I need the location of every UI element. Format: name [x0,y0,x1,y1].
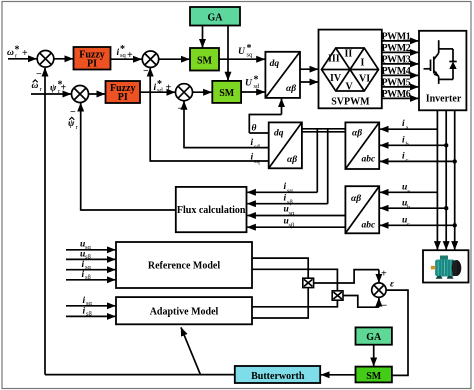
svg-text:−: − [70,107,76,118]
wire adaptive model output 2 [252,288,308,318]
wire S4 to SM 2 [193,91,212,93]
summing junction S5 (speed error epsilon) [372,283,386,297]
summing junction S4 (d-current error) [176,84,193,101]
node U_sq* label [238,43,253,59]
node i_salpha label [284,182,294,195]
wire beta current U2 to T1 lower [302,131,346,133]
wire inverter phase a vertical [436,110,438,249]
svg-text:dq: dq [270,59,280,69]
controller SM 1 (q-axis sliding mode) [190,48,219,71]
svg-text:sq: sq [120,52,127,59]
wire flux output psi_r hat horizontal [81,209,176,211]
wire speed reference input [8,58,37,60]
wire M2 to summing junction S5 minus input [343,296,379,308]
wire GA to SM bottom [373,345,375,366]
svg-text:U: U [245,79,253,89]
node u_salpha input label (reference model) [80,240,92,251]
svg-text:+: + [381,269,387,280]
svg-text:III: III [328,54,340,65]
svg-text:ψ: ψ [50,84,57,94]
node i_sq feedback label [251,153,261,166]
node U_sd* label [245,75,260,91]
svg-text:II: II [345,49,353,60]
wire i_a into T1 [380,128,437,130]
wire i_c into T1 [380,160,455,162]
transistor IGBT with freewheeling diode inside inverter [424,40,457,84]
svg-text:sd: sd [254,83,261,90]
wire psi_r hat vertical into S2 [80,103,82,211]
node i_salpha input label (reference model) [82,260,92,271]
node i_salpha input label (adaptive model) [83,296,93,307]
wire u_c into T2 [380,224,455,226]
transform block T2 alphabeta to abc (voltages) [345,186,379,233]
optimizer GA (bottom) [356,327,392,344]
wire u_sbeta T2 to flux calculation [247,226,345,228]
svg-text:a: a [406,125,409,132]
wire adaptive model output 1 [252,300,337,307]
wire u_sbeta into reference model [66,258,115,260]
svg-text:abc: abc [362,155,377,165]
block Flux calculation [176,187,247,232]
svg-text:−: − [178,104,184,115]
node i_sd* label [154,79,164,94]
node u_salpha label [284,205,296,218]
wire reference model output 2 [252,269,337,291]
wire reference model output 1 [252,258,308,278]
block Reference Model [116,242,252,288]
wire PWM4 [382,74,419,76]
svg-text:ω: ω [7,48,14,58]
node psi_r* label [50,80,63,95]
node i_sbeta label [284,194,294,207]
wire Fuzzy PI 2 to summing junction S4 [140,91,175,93]
svg-text:SM: SM [366,371,382,382]
multiplier M2 [332,291,343,300]
wire arrow up into S5 [378,298,380,307]
transform block U2 dq to alphabeta (current feedback) [269,122,302,168]
node i_sbeta input label (adaptive model) [83,307,93,318]
motor drawing (induction machine photo) [431,256,462,279]
svg-text:I: I [361,58,365,69]
wire i_sbeta branch vertical [327,129,329,204]
svg-text:abc: abc [362,221,377,231]
svg-text:+: + [127,50,133,61]
multiplier M1 [303,278,314,287]
block SVPWM [319,30,382,109]
summing junction S1 (speed error) [37,51,54,68]
wire i_sd feedback horizontal [184,147,269,149]
controller SM 2 (d-axis sliding mode) [212,81,241,103]
svg-text:VI: VI [359,74,370,85]
wire i_salpha branch vertical [316,129,318,193]
wire S1 to Fuzzy PI 1 [54,58,73,60]
node i_b label [402,136,409,149]
summing junction S2 (flux error) [72,86,89,103]
node i_sbeta input label (reference model) [82,270,92,281]
node i_a label [402,119,409,132]
junction dot u_c [453,223,457,227]
wire PWM2 [382,51,419,53]
node u_c label [402,216,410,229]
transform block T1 alphabeta to abc (currents) [345,122,379,169]
block Butterworth filter [235,366,320,383]
svg-text:SM: SM [197,56,213,67]
wire u_salpha T2 to flux calculation [247,215,345,217]
wire i_sd feedback vertical into S4 [183,101,185,148]
wire GA to SM 1 [202,26,204,48]
svg-text:αβ: αβ [352,129,362,139]
wire i_sbeta into flux calculation [247,203,327,205]
svg-text:−: − [382,300,388,311]
svg-text:Flux calculation: Flux calculation [177,205,246,216]
wire theta horizontal top [249,114,281,116]
svg-text:SM: SM [219,88,235,99]
wire u_salpha into reference model [66,249,115,251]
node u_sbeta label [284,217,296,230]
wire alpha current U2 to T1 upper [302,128,346,130]
wire theta vertical [248,114,250,133]
wire inverter phase c vertical [454,110,456,249]
wire flux reference input [31,93,71,95]
wire u_b into T2 [380,207,446,209]
wire adaptation diagonal into adaptive model [181,327,200,374]
svg-text:αβ: αβ [351,194,361,204]
block Adaptive Model [116,297,252,324]
transform block U1 dq to alphabeta [265,52,300,98]
wire theta into U2 [249,132,268,134]
svg-text:sq: sq [247,52,254,59]
svg-text:αβ: αβ [286,84,296,94]
node i_sd feedback label [251,138,261,151]
svg-text:+: + [22,48,28,59]
svg-text:+: + [166,83,172,94]
node i_sq* label [117,44,127,59]
svg-text:PI: PI [87,59,97,70]
wire PWM1 [382,40,419,42]
wire PWM3 [382,63,419,65]
svg-text:SVPWM: SVPWM [331,96,370,107]
node psi_r hat feedback label [68,117,79,131]
wire i_salpha into reference model [66,269,115,271]
wire U1 to SVPWM lower [300,81,318,83]
svg-text:+: + [61,83,67,94]
node omega_r hat feedback label [32,80,43,93]
svg-text:−: − [36,69,42,80]
svg-text:sα: sα [289,210,296,217]
svg-text:Adaptive Model: Adaptive Model [150,306,219,317]
wire epsilon to SM bottom [386,290,408,375]
node u_b label [402,199,410,212]
block motor box [423,250,469,282]
svg-text:Butterworth: Butterworth [251,371,305,382]
wire SM 1 to dq/alphabeta block U1 [219,58,265,60]
wire inverter phase b vertical [445,110,447,249]
summing junction S3 (q-current error) [142,51,158,67]
wire i_salpha into adaptive model [66,305,115,307]
wire i_b into T1 [380,144,446,146]
svg-text:ψ: ψ [68,119,75,129]
wire PWM5 [382,86,419,88]
svg-text:−: − [143,66,149,77]
wire i_sq feedback vertical into S3 [149,68,151,162]
wire GA to SM 2 [227,26,229,81]
svg-text:θ: θ [252,124,257,134]
wire Fuzzy PI 1 to summing junction S3 [111,58,142,60]
wire i_sq feedback horizontal [150,160,269,162]
node omega_r* speed reference label [7,45,20,60]
svg-text:Inverter: Inverter [426,93,462,104]
svg-text:GA: GA [366,332,382,343]
svg-text:GA: GA [208,13,224,24]
svg-text:sd: sd [157,87,164,94]
node u_a label [402,183,410,196]
svg-text:ε: ε [390,280,394,290]
controller SM (adaptation sliding mode) [356,367,392,383]
wire S3 to SM 1 [159,58,190,60]
svg-text:PI: PI [118,92,128,103]
optimizer GA (top) [190,7,240,26]
wire Butterworth output feedback bottom [45,374,235,376]
svg-text:sβ: sβ [289,222,296,229]
wire S2 to Fuzzy PI 2 [89,93,106,95]
controller Fuzzy PI 1 (speed) [74,47,111,70]
wire PWM6 [382,97,419,99]
node i_c label [402,152,409,165]
wire u_a into T2 [380,191,437,193]
controller Fuzzy PI 2 (flux) [106,81,141,103]
wire i_salpha into flux calculation [247,191,317,193]
block Inverter [419,31,466,111]
junction dot u_b [444,206,448,210]
SVPWM sector hexagon [322,48,379,91]
svg-text:IV: IV [330,73,342,84]
wire arrow down into S5 [378,270,380,283]
wire SM 2 to dq/alphabeta block U1 [241,91,265,93]
junction dot i_c [453,159,457,163]
svg-text:sα: sα [287,188,294,195]
node u_sbeta input label (reference model) [80,250,92,261]
wire i_sbeta into reference model [66,279,115,281]
wire theta branch up into U1 [281,99,283,115]
wire omega feedback vertical up into S1 [44,68,46,375]
wire M1 to summing junction S5 plus input [314,270,379,283]
wire U1 to SVPWM upper [300,68,318,70]
svg-text:V: V [346,82,354,93]
svg-text:dq: dq [274,129,284,139]
wire SM to Butterworth [321,374,356,376]
svg-text:αβ: αβ [287,155,297,165]
svg-text:U: U [238,47,246,57]
svg-text:Reference Model: Reference Model [148,260,221,271]
svg-text:c: c [406,157,409,164]
junction dot i_b [444,143,448,147]
wire i_sbeta into adaptive model [66,315,115,317]
